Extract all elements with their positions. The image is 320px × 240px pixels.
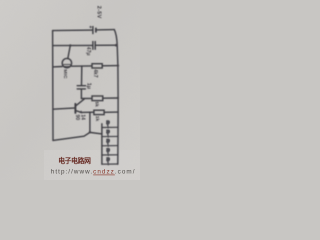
wire mic output [72, 65, 92, 67]
wire ladder rung 3 [102, 145, 118, 147]
wire cap2 bottom lead [80, 89, 82, 98]
battery B1 plate + [92, 27, 94, 34]
battery B1 plate - [95, 28, 97, 32]
svg-text:5k: 5k [94, 101, 100, 107]
left rail [52, 31, 54, 141]
wire emitter vertical [89, 112, 91, 132]
wire collector node [81, 97, 92, 99]
node junction emitter/bottom rail [89, 131, 91, 133]
wire R3 to right rail [104, 111, 118, 113]
transistor Q1 collector lead [76, 99, 85, 106]
battery B1 plus mark [90, 26, 92, 28]
right rail [114, 30, 118, 165]
node junction collector/right rail [117, 97, 119, 99]
wire ladder rung 5 [102, 163, 118, 165]
wire cap2 top lead [81, 66, 83, 85]
svg-text:电子电路网: 电子电路网 [58, 156, 91, 165]
diode D3 glyph [106, 139, 110, 147]
wire rail2 from left rail [53, 44, 93, 46]
wire R1 to right rail [102, 65, 118, 67]
capacitor C1 plate left [92, 42, 94, 50]
microphone plates [64, 64, 71, 66]
wire base from left rail [53, 108, 75, 109]
wire ladder left rail [101, 124, 103, 164]
svg-text:1μ: 1μ [85, 83, 91, 89]
resistor R3 body [94, 110, 104, 114]
capacitor C2 plate bottom [77, 88, 85, 90]
capacitor C1 plate right [94, 42, 96, 50]
transistor Q1 base bar [74, 104, 76, 113]
wire mic top stub to rail2 [68, 45, 71, 58]
diode D1 glyph [106, 120, 110, 165]
resistor R1 body [92, 64, 102, 68]
wire ladder rung 4 [102, 154, 118, 156]
wire rail2 to right rail [96, 44, 117, 46]
svg-text:90: 90 [74, 115, 80, 121]
transistor Q1 emitter lead with arrow [76, 111, 82, 113]
wire emitter node to R3 [81, 111, 94, 113]
diode D4 glyph [106, 148, 110, 156]
wire left rail to mic [53, 66, 62, 68]
diode D2 glyph [106, 129, 110, 137]
resistor R2 body [92, 96, 103, 101]
labels (rotated scan text) [62, 6, 101, 122]
svg-text:2-5V: 2-5V [96, 6, 102, 19]
svg-text:4k7: 4k7 [92, 69, 98, 78]
wire ladder rung 2 [102, 135, 118, 137]
capacitor C2 plate top [77, 85, 85, 87]
svg-text:http://www.cndzz.com/: http://www.cndzz.com/ [51, 169, 136, 176]
node junction rail2/right rail [115, 44, 118, 47]
paper background [0, 0, 140, 180]
node junction mic-wire/right rail [117, 64, 119, 66]
svg-text:47μ: 47μ [85, 47, 91, 56]
microphone MIC body [62, 58, 71, 67]
wire top rail left segment [53, 29, 93, 32]
svg-text:1k: 1k [94, 116, 100, 122]
svg-text:14: 14 [80, 114, 86, 120]
diode D5 glyph [106, 157, 110, 165]
wire top rail right segment to corner [96, 29, 114, 31]
wire ladder rung 1 [102, 126, 118, 128]
svg-text:MIC: MIC [62, 69, 68, 79]
wire bottom rail [53, 132, 102, 140]
wire R2 to right rail [103, 97, 118, 99]
